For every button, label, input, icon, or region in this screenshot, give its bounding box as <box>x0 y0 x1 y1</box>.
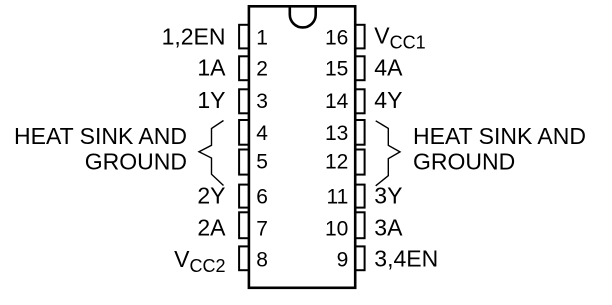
svg-text:GROUND: GROUND <box>85 149 187 175</box>
pin 1 lead <box>239 25 249 49</box>
svg-text:GROUND: GROUND <box>413 149 515 175</box>
svg-text:1,2EN: 1,2EN <box>162 23 226 49</box>
pin 11 lead <box>355 185 365 208</box>
svg-text:3A: 3A <box>374 214 403 240</box>
svg-text:16: 16 <box>325 26 348 49</box>
svg-text:10: 10 <box>325 217 348 240</box>
pin 10 lead <box>355 212 365 238</box>
pin-1 index notch <box>290 6 316 27</box>
svg-text:1Y: 1Y <box>197 87 225 113</box>
svg-text:11: 11 <box>326 186 348 209</box>
svg-text:HEAT SINK AND: HEAT SINK AND <box>413 123 586 149</box>
svg-text:7: 7 <box>256 217 268 240</box>
pin 16 lead <box>355 25 365 49</box>
pin 14 lead <box>355 89 365 113</box>
pin 2 lead <box>239 56 249 80</box>
svg-text:6: 6 <box>256 186 268 209</box>
pin 4 lead <box>239 120 249 145</box>
svg-text:9: 9 <box>337 249 349 272</box>
svg-text:2: 2 <box>256 58 268 81</box>
svg-text:3Y: 3Y <box>374 183 402 209</box>
svg-text:1A: 1A <box>197 55 226 81</box>
svg-text:8: 8 <box>256 249 268 272</box>
right heat-sink brace (pins 13-12) <box>376 121 400 186</box>
left label HEAT SINK AND GROUND <box>14 123 187 175</box>
svg-text:3,4EN: 3,4EN <box>374 246 438 272</box>
pin 7 lead <box>239 212 249 238</box>
svg-text:1: 1 <box>256 26 268 49</box>
pin 6 lead <box>239 185 249 208</box>
svg-text:14: 14 <box>325 90 349 113</box>
pin 3 lead <box>239 89 249 113</box>
svg-text:3: 3 <box>256 90 268 113</box>
right label HEAT SINK AND GROUND <box>413 123 586 175</box>
svg-text:13: 13 <box>325 122 348 145</box>
pin 15 lead <box>355 56 365 80</box>
svg-text:2A: 2A <box>197 214 226 240</box>
svg-text:HEAT SINK AND: HEAT SINK AND <box>14 123 187 149</box>
svg-text:5: 5 <box>256 150 268 173</box>
pin 5 lead <box>239 150 249 175</box>
pin 13 lead <box>355 120 365 145</box>
svg-text:15: 15 <box>325 58 348 81</box>
pin 9 lead <box>355 246 365 270</box>
svg-text:2Y: 2Y <box>197 183 225 209</box>
pin 8 lead <box>239 246 249 270</box>
pin 12 lead <box>355 150 365 175</box>
IC package body U1 (DIP-16 outline) <box>249 6 355 288</box>
left heat-sink brace (pins 4-5) <box>199 121 224 186</box>
svg-text:4Y: 4Y <box>374 87 402 113</box>
svg-text:4A: 4A <box>374 55 403 81</box>
svg-text:4: 4 <box>256 122 268 145</box>
svg-text:12: 12 <box>325 150 348 173</box>
